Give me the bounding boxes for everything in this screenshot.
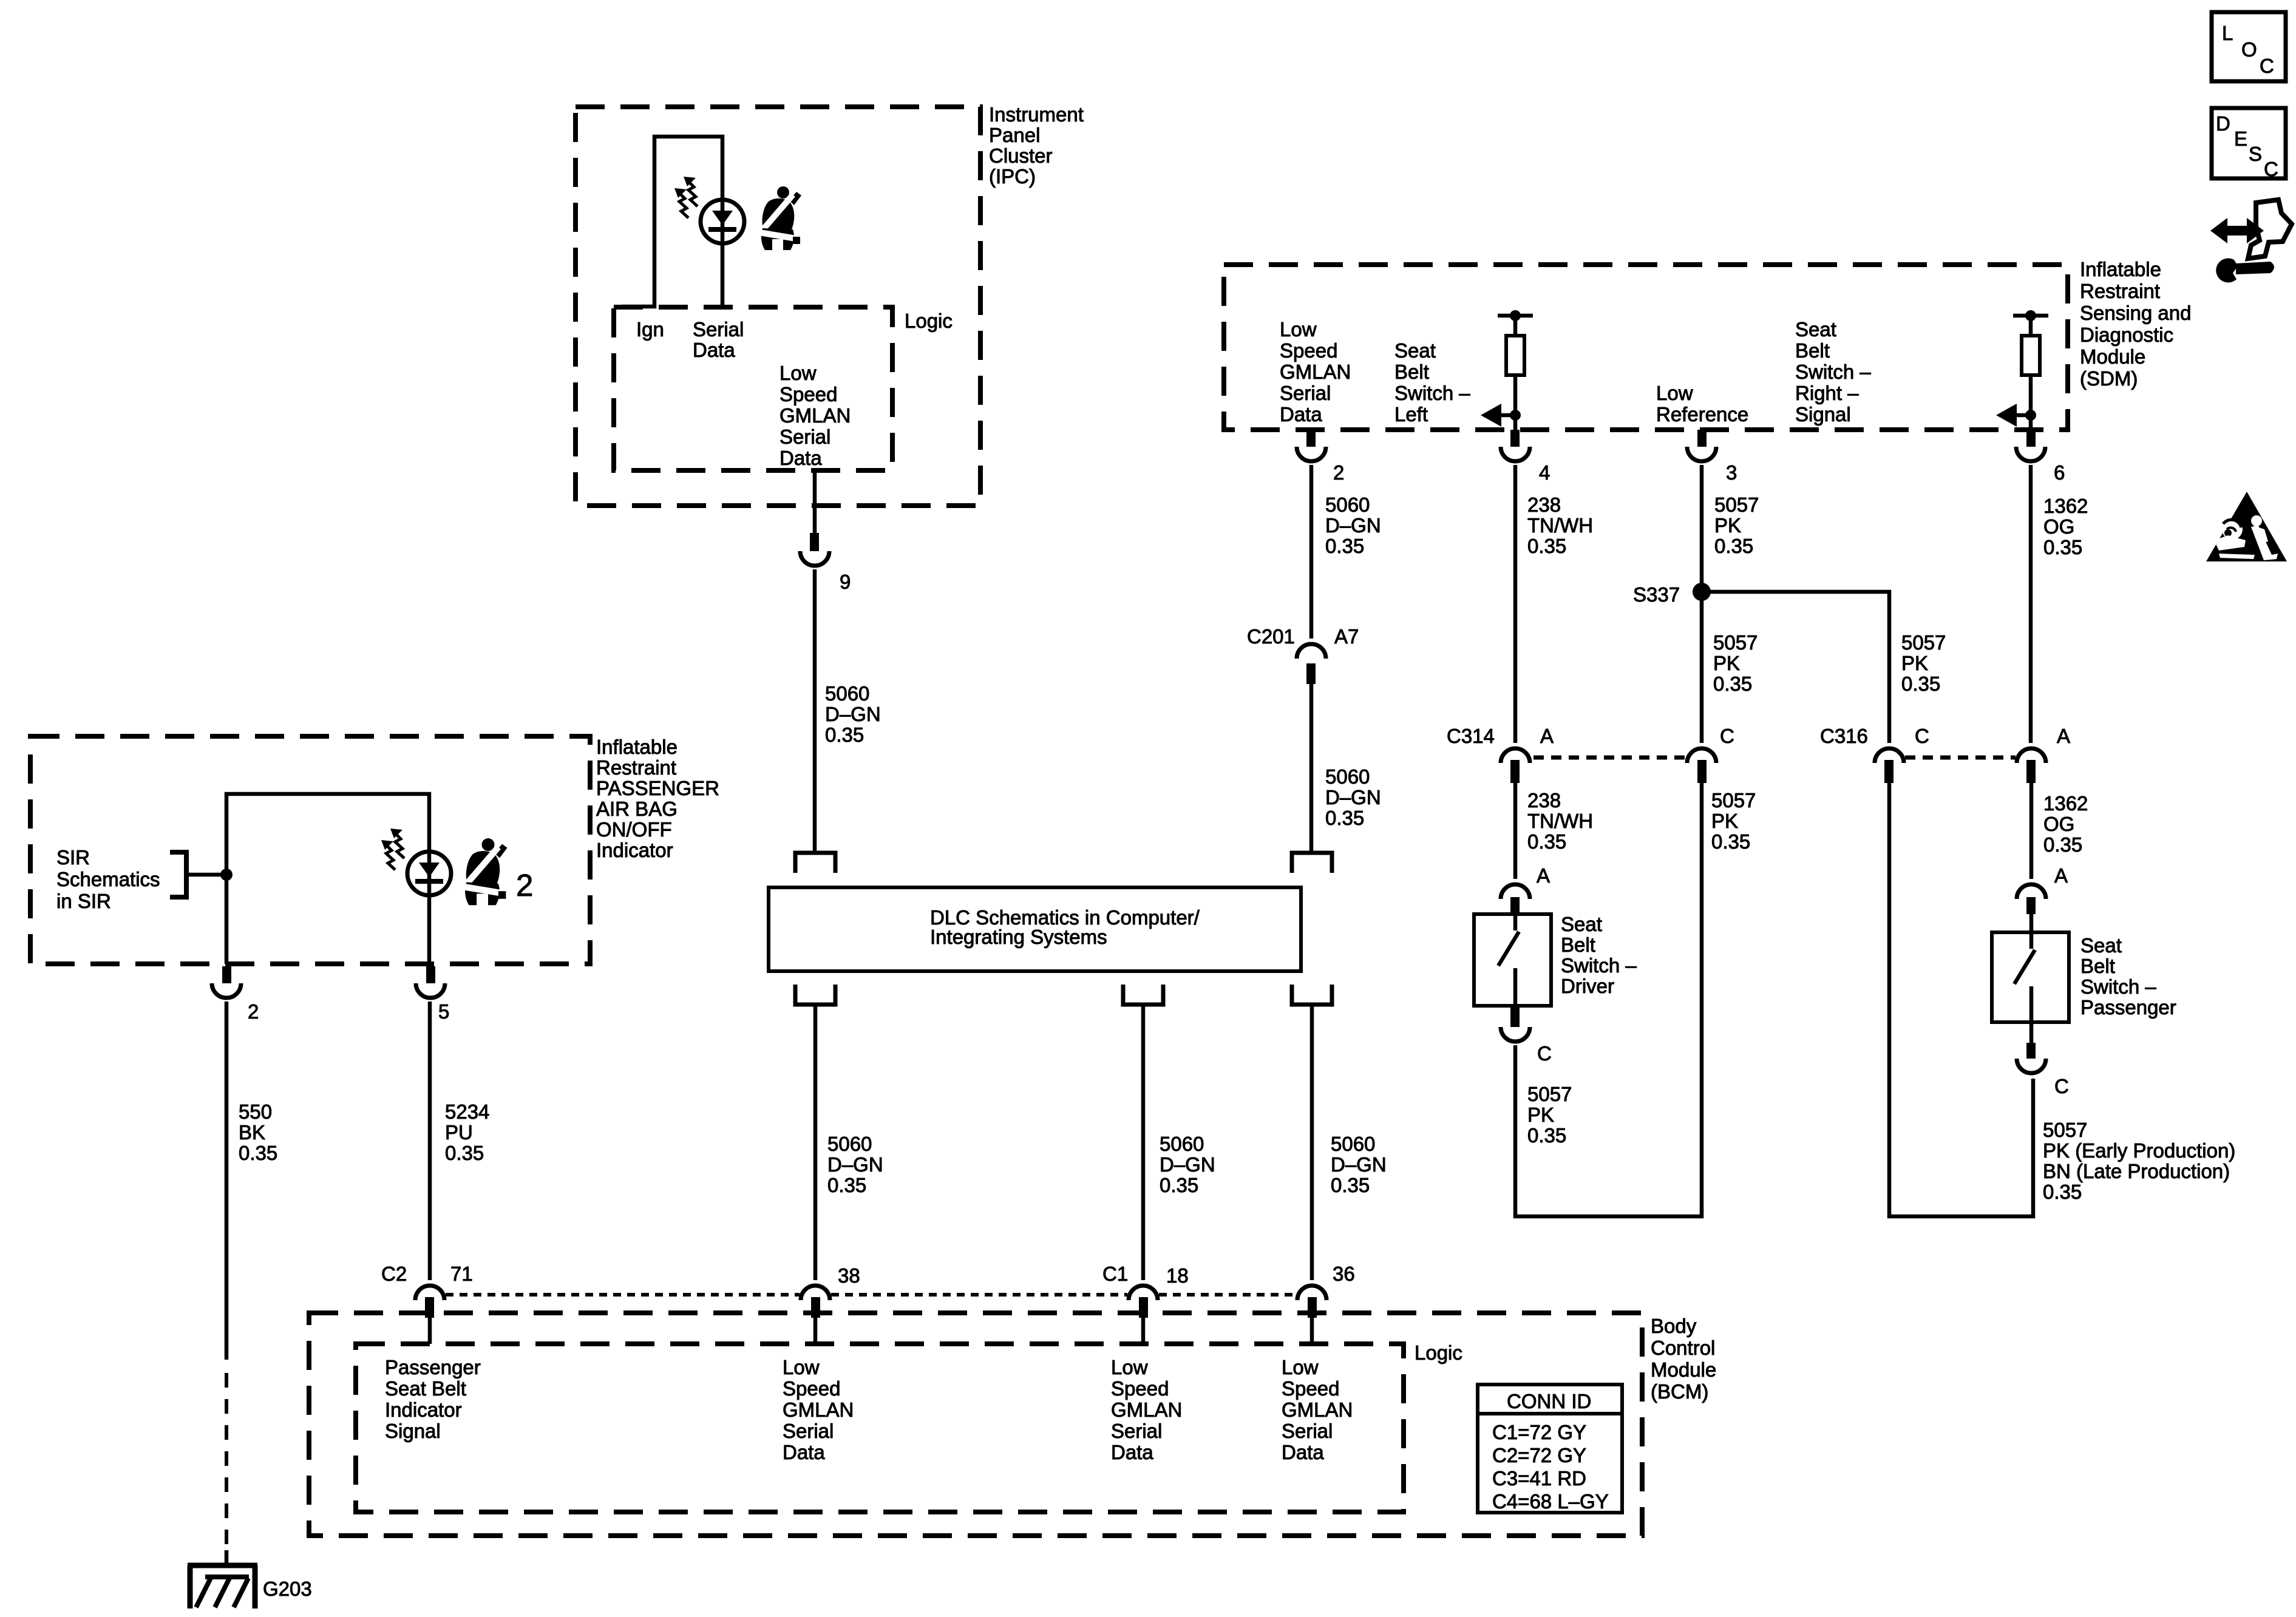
terminal bracket: DLC bottom-right pin — [1292, 985, 1332, 1005]
svg-text:2: 2 — [1333, 461, 1344, 484]
wire 5060 D-GN: DLC to BCM pin 18 — [1141, 1005, 1146, 1280]
wire 5060 D-GN from IPC to DLC — [813, 569, 817, 853]
svg-text:18: 18 — [1166, 1264, 1189, 1287]
connector pin 2 (indicator) — [212, 966, 241, 998]
wire: IPC internal door-shape (Ign / Serial Data feeds) — [622, 137, 722, 307]
svg-text:S: S — [2249, 143, 2262, 165]
svg-text:A: A — [2054, 864, 2068, 887]
svg-text:O: O — [2241, 38, 2257, 61]
connector terminal C (passenger switch) — [2017, 1022, 2046, 1073]
module box: Inflatable Restraint Sensing and Diagnostic Module (SDM) — [1224, 265, 2068, 430]
wire 5060 D-GN: DLC to BCM pin 38 — [813, 1005, 818, 1280]
module box: Instrument Panel Cluster (IPC) — [576, 107, 980, 506]
LED D2: PASSENGER AIR BAG indicator lamp — [381, 829, 451, 895]
svg-text:Logic: Logic — [905, 310, 953, 332]
in-line connector C314 terminal C — [1687, 748, 1716, 783]
svg-text:5: 5 — [438, 1000, 449, 1023]
connector pin 3 (SDM) — [1687, 430, 1716, 461]
resistor: SDM pull-up, seat belt switch left — [1498, 310, 1533, 430]
icon: seat belt wearer (indicator) — [463, 838, 508, 905]
connector terminal A (driver switch) — [1501, 884, 1530, 914]
terminal bracket: DLC bottom-middle pin — [1123, 985, 1163, 1005]
terminal bracket: DLC top-right pin — [1292, 853, 1332, 873]
svg-text:C: C — [2264, 158, 2278, 180]
wire into BCM logic — [1310, 1318, 1314, 1344]
svg-text:D: D — [2216, 112, 2230, 135]
svg-text:38: 38 — [838, 1264, 860, 1287]
bracket: SIR schematics tie-in — [170, 852, 186, 897]
wire 5060 D-GN: SDM pin 2 down to C201 — [1309, 465, 1314, 639]
connector pin 6 (SDM) — [2016, 430, 2045, 461]
connector terminal A (passenger switch) — [2017, 884, 2046, 914]
terminal bracket: DLC bottom-left pin — [795, 985, 835, 1005]
icon: LOC reference box — [2212, 12, 2286, 81]
block: DLC Schematics in Computer/Integrating Systems — [769, 887, 1301, 971]
svg-text:2: 2 — [516, 868, 533, 903]
svg-text:A: A — [2057, 725, 2070, 747]
svg-text:G203: G203 — [263, 1578, 312, 1600]
connector pin 2 (SDM) — [1297, 430, 1326, 461]
splice S337 — [1693, 583, 1711, 601]
svg-text:2: 2 — [248, 1000, 259, 1023]
arrow: signal direction, seat belt switch right — [1996, 404, 2036, 427]
svg-text:L: L — [2222, 22, 2233, 44]
svg-text:S337: S337 — [1633, 583, 1680, 606]
wire 5234 PU: indicator pin 5 to BCM — [428, 1002, 432, 1280]
icon: seat belt wearer (IPC) — [759, 186, 801, 250]
harness link dashes C316 — [1905, 756, 2016, 760]
BCM connector row dotted link 1 — [446, 1293, 800, 1297]
table: CONN ID — [1478, 1385, 1622, 1513]
svg-text:4: 4 — [1539, 461, 1550, 484]
svg-text:C: C — [1537, 1042, 1552, 1065]
wire into BCM logic — [813, 1318, 818, 1344]
svg-text:C: C — [2260, 55, 2274, 77]
LED D1: seat belt indicator lamp in IPC — [674, 177, 744, 243]
svg-text:E: E — [2234, 127, 2247, 150]
wire 550 BK: indicator to ground (solid part) — [225, 1002, 229, 1360]
svg-text:Logic: Logic — [1415, 1341, 1462, 1364]
arrow: signal direction, seat belt switch left — [1481, 404, 1521, 427]
svg-text:A: A — [1540, 725, 1554, 747]
in-line connector C201 terminal A7 — [1297, 644, 1326, 684]
connector pin 9 (IPC harness connector) — [800, 533, 829, 566]
svg-text:C316: C316 — [1820, 725, 1868, 747]
svg-text:C1: C1 — [1102, 1263, 1128, 1285]
icon: DESC reference box — [2212, 108, 2286, 180]
switch: Seat Belt Switch - Passenger — [1992, 932, 2069, 1022]
wire 238 TN/WH: SDM pin 4 down to C314 — [1513, 465, 1518, 743]
logic block box inside BCM — [356, 1344, 1404, 1512]
wire stub to ground — [225, 1550, 229, 1565]
BCM connector row dotted link 2 — [831, 1293, 1127, 1297]
svg-text:C201: C201 — [1247, 625, 1295, 648]
connector terminal C (driver switch) — [1501, 1007, 1530, 1042]
in-line connector C2 terminal 71 (BCM) — [415, 1286, 444, 1318]
svg-text:C: C — [1720, 725, 1734, 747]
svg-text:C314: C314 — [1447, 725, 1495, 747]
connector pin 4 (SDM) — [1501, 430, 1530, 461]
in-line connector C314 terminal A — [1501, 748, 1530, 783]
wire into BCM logic — [428, 1318, 432, 1344]
icon: service tool (arrow + wrench) — [2210, 200, 2292, 282]
svg-text:9: 9 — [840, 571, 851, 593]
svg-text:71: 71 — [450, 1263, 473, 1285]
module box: Inflatable Restraint PASSENGER AIR BAG ON/OFF Indicator — [30, 736, 590, 964]
wire 5057 PK: driver switch to return loop — [1515, 783, 1702, 1216]
in-line connector C316 terminal C — [1875, 748, 1904, 783]
wire: indicator internal loop — [226, 794, 429, 964]
svg-text:Ign: Ign — [636, 318, 664, 341]
harness link dashes C314 — [1533, 756, 1686, 760]
resistor: SDM pull-up, seat belt switch right — [2013, 310, 2048, 430]
wire 1362 OG: SDM pin 6 to C316 — [2029, 465, 2033, 743]
svg-text:CONN ID: CONN ID — [1507, 1390, 1591, 1412]
svg-text:C2: C2 — [381, 1263, 407, 1285]
terminal bracket: DLC top-left pin — [795, 853, 835, 873]
BCM connector row dotted link 3 — [1159, 1293, 1296, 1297]
wire into BCM logic — [1141, 1318, 1146, 1344]
wire: C316-C down and across to passenger switch return — [1889, 783, 2033, 1216]
svg-text:36: 36 — [1333, 1263, 1355, 1285]
wire 550 BK continued (dashed) — [225, 1373, 228, 1550]
svg-text:3: 3 — [1726, 461, 1737, 484]
wire 5057 PK: SDM pin 3 to S337 — [1700, 465, 1704, 743]
wire 5060 D-GN: C201 to DLC — [1309, 684, 1314, 853]
connector terminal 36 (BCM) — [1297, 1286, 1326, 1318]
wire: SIR stub to junction — [186, 873, 226, 877]
connector pin 5 (indicator) — [416, 966, 445, 998]
wire: S337 branch to C316 — [1702, 592, 1889, 743]
in-line connector C316 terminal A — [2017, 748, 2046, 783]
wire into passenger switch — [2029, 914, 2034, 932]
wire 238 TN/WH: C314 to driver switch — [1513, 783, 1518, 879]
svg-text:A: A — [1537, 864, 1550, 887]
svg-text:C: C — [1915, 725, 1929, 747]
junction node on indicator feed — [220, 869, 233, 881]
ground G203 — [188, 1565, 257, 1609]
wire: IPC serial data output — [813, 470, 817, 533]
connector terminal 38 (BCM) — [801, 1286, 830, 1318]
module box: Body Control Module (BCM) — [309, 1313, 1642, 1536]
switch: Seat Belt Switch - Driver — [1474, 914, 1551, 1006]
icon: airbag caution triangle — [2206, 492, 2287, 561]
in-line connector C1 terminal 18 (BCM) — [1129, 1286, 1158, 1318]
svg-text:6: 6 — [2054, 461, 2065, 484]
svg-text:A7: A7 — [1334, 625, 1359, 648]
wire 1362 OG: C316 to passenger switch — [2029, 783, 2034, 879]
wire 5060 D-GN: DLC to BCM pin 36 — [1310, 1005, 1314, 1280]
svg-text:C: C — [2054, 1075, 2069, 1097]
logic block box inside IPC — [614, 307, 892, 470]
